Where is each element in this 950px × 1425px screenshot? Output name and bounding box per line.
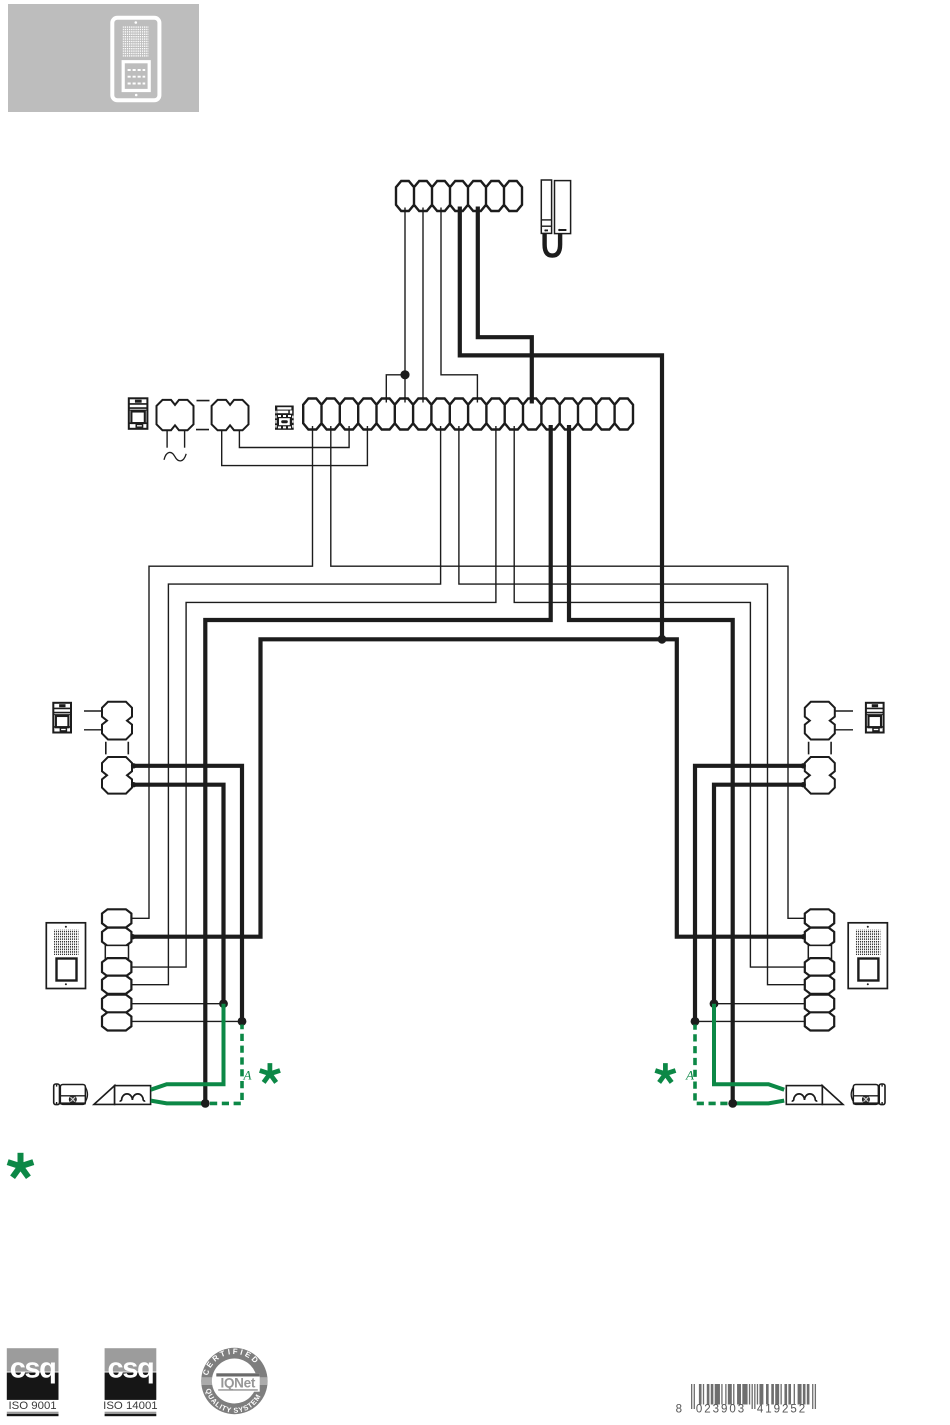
door opener symbol right <box>786 1086 843 1105</box>
wire X2-1 to left riser A <box>131 426 312 918</box>
junction block JB1 left <box>102 702 132 740</box>
junction node J2 <box>658 635 667 644</box>
wire X2-11 to left riser C <box>131 426 496 967</box>
green dashed alt link left <box>210 1025 242 1104</box>
wire X2-2 to right riser A <box>331 426 805 918</box>
dashed link M1-M2 <box>196 401 210 430</box>
svg-text:ISO 9001: ISO 9001 <box>9 1400 57 1412</box>
wire JB2-right pin2 thick <box>714 785 804 1004</box>
svg-text:A: A <box>243 1068 252 1083</box>
power supply module <box>275 406 294 430</box>
wire X3L-5 stub <box>131 1003 223 1005</box>
footnote asterisk <box>7 1153 35 1179</box>
wire M1 pin1 stub <box>166 430 168 447</box>
svg-text:ISO 14001: ISO 14001 <box>103 1400 157 1412</box>
junction node J3 left <box>219 999 228 1008</box>
green dashed alt link right <box>695 1025 728 1104</box>
wire X2-15 thick to right lock node <box>569 425 733 1103</box>
junction block JB2 right <box>805 757 835 794</box>
wire X1-1 down <box>404 208 406 373</box>
green wire lock-return left <box>151 1101 203 1104</box>
transformer TF module <box>129 398 148 429</box>
nub JB2-left pin2 <box>131 782 136 787</box>
AC mains symbol <box>164 452 186 460</box>
entry panel pictogram (white icon) <box>112 18 159 101</box>
green wire lock-return right <box>735 1101 785 1104</box>
svg-text:A: A <box>685 1068 694 1083</box>
wire X3L-6 stub <box>131 1020 242 1022</box>
svg-text:419252: 419252 <box>757 1404 807 1416</box>
wire relay-left pin2 <box>84 729 102 731</box>
junction block JB2 left <box>102 757 132 794</box>
nub JB2-right pin2 <box>801 782 806 787</box>
relay module right <box>866 703 884 733</box>
junction node J5 left <box>201 1099 210 1108</box>
svg-text:IQNet: IQNet <box>221 1376 256 1391</box>
wire JB2-left pin2 thick <box>133 785 224 1004</box>
wire X1-3 to X2-10 <box>441 208 477 399</box>
lock release device right <box>851 1084 885 1105</box>
dashed link JB1-JB2 left <box>106 742 129 755</box>
IQNet certification seal <box>201 1347 268 1415</box>
junction block JB1 right <box>805 702 835 740</box>
junction node J5 right <box>728 1099 737 1108</box>
wire relay-right pin1 <box>835 710 853 712</box>
EAN-13 barcode 8023903419252 <box>691 1384 816 1409</box>
wire X1-2 to X2-7 <box>422 208 424 399</box>
wire X2-12 to right riser C <box>514 426 805 967</box>
junction node J4 left <box>238 1017 247 1026</box>
relay module left <box>53 703 71 733</box>
asterisk marker left <box>259 1063 281 1084</box>
junction node J3 right <box>710 999 719 1008</box>
wire X2-8 to left riser B <box>131 426 440 985</box>
header pictogram panel (gray box) <box>8 4 199 112</box>
green wire lock-feed right <box>714 1004 784 1090</box>
wire JB2-left pin1 thick <box>133 766 242 1022</box>
receiver terminal strip X1 <box>396 181 522 211</box>
nub JB2-left pin1 <box>131 763 136 768</box>
main terminal strip X2 <box>303 399 633 430</box>
wire X3R-5 stub <box>714 1003 805 1005</box>
terminal block M2 <box>212 400 249 430</box>
wire M1 pin2 stub <box>184 430 186 447</box>
wire X3R-6 stub <box>695 1020 805 1022</box>
entry panel right <box>848 923 887 989</box>
entry panel left <box>46 923 85 989</box>
lock release device left <box>54 1084 88 1105</box>
handset receiver <box>541 180 570 256</box>
green wire lock-feed left <box>151 1004 224 1090</box>
wire stubs into X2 top <box>386 397 477 403</box>
CSQ ISO 9001 logo <box>7 1348 59 1416</box>
wire X1-4 trunk (thick) to J2 <box>460 207 662 640</box>
asterisk marker right <box>655 1063 677 1084</box>
speaker panel strip X3 left <box>102 909 131 1030</box>
wire J1 branch to X2-6 <box>404 375 406 399</box>
wire X1-5 (thick) to X2-13 <box>478 207 532 399</box>
nub X3L-2 <box>130 934 135 939</box>
dashed link JB1-JB2 right <box>809 742 832 755</box>
wire X2-14 thick to left lock node <box>205 425 550 1103</box>
terminal block M1 <box>157 400 194 430</box>
wire M2 pin2 to X2-3 <box>239 426 349 448</box>
wire X2-9 to right riser B <box>459 426 805 985</box>
wire relay-right pin2 <box>835 729 853 731</box>
svg-text:csq: csq <box>10 1353 56 1385</box>
door opener symbol left <box>94 1086 151 1105</box>
wire J1 branch to X2-5 <box>386 375 405 399</box>
svg-text:8: 8 <box>676 1404 682 1416</box>
nub X3R-2 <box>801 934 806 939</box>
junction node J1 <box>400 370 409 379</box>
trunk bus E (thick) <box>131 639 804 936</box>
svg-text:023903: 023903 <box>696 1404 746 1416</box>
svg-text:csq: csq <box>108 1353 154 1385</box>
junction node J4 right <box>691 1017 700 1026</box>
nub JB2-right pin1 <box>801 763 806 768</box>
wire relay-left pin1 <box>84 710 102 712</box>
CSQ ISO 14001 logo <box>103 1348 157 1416</box>
wire stub X2-13 top (thick) <box>530 397 534 404</box>
wire M2 pin1 to X2-4 <box>222 426 368 466</box>
speaker panel strip X3 right <box>805 909 834 1030</box>
wire JB2-right pin1 thick <box>695 766 804 1022</box>
